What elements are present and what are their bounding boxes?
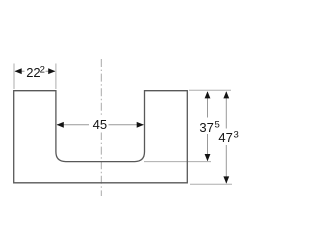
svg-text:22: 22 [26, 65, 40, 80]
svg-text:2: 2 [40, 65, 45, 76]
svg-text:47: 47 [218, 130, 232, 145]
svg-text:5: 5 [215, 120, 220, 131]
svg-text:37: 37 [199, 120, 213, 135]
svg-text:3: 3 [234, 130, 239, 141]
svg-text:45: 45 [93, 117, 107, 132]
